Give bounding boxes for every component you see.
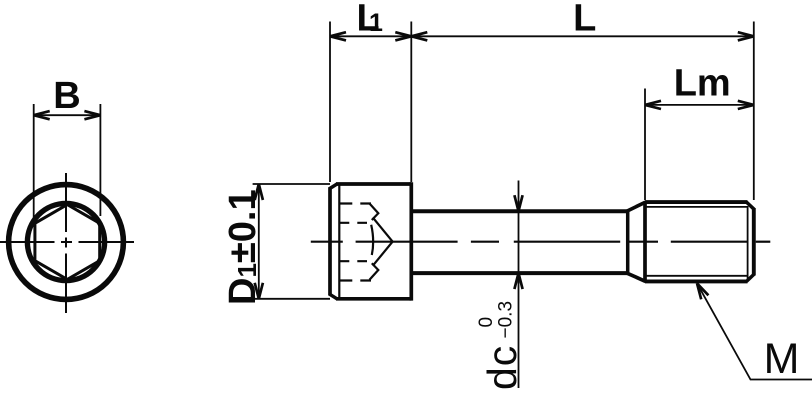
- B extension line right: [99, 104, 101, 216]
- L arrow left: [411, 32, 427, 40]
- B arrow right: [84, 111, 100, 119]
- outer circle (head OD): [9, 185, 124, 300]
- Lm dimension line: [645, 104, 754, 106]
- L extension line right: [753, 22, 755, 201]
- taper top: [627, 202, 646, 211]
- thread minor line bottom: [645, 275, 748, 277]
- L1 extension line left: [329, 22, 331, 183]
- vertical centerline left view: [65, 173, 67, 313]
- head top-left chamfer: [329, 184, 337, 189]
- svg-text:D1±0.1: D1±0.1: [222, 189, 264, 305]
- thread runout vertical: [626, 211, 630, 273]
- L1 dimension line: [330, 35, 411, 37]
- socket hidden line 2: [339, 222, 367, 224]
- head right edge: [409, 182, 413, 300]
- shank bottom line: [413, 271, 628, 275]
- L1 arrow right: [395, 32, 411, 40]
- side view centerline: [311, 241, 771, 243]
- thread chamfer line: [747, 206, 749, 280]
- svg-text:Lm: Lm: [674, 63, 731, 105]
- socket lower chevron: [370, 263, 379, 280]
- thread bottom-right chamfer: [747, 274, 755, 281]
- socket upper chevron: [370, 204, 379, 221]
- D1 extension line top: [253, 183, 330, 185]
- dc line through shank: [518, 211, 520, 273]
- shank top line: [413, 209, 628, 213]
- socket hidden line 1: [339, 202, 371, 204]
- svg-text:0: 0: [476, 317, 497, 328]
- svg-text:−0.3: −0.3: [496, 301, 517, 339]
- svg-text:L1: L1: [357, 0, 384, 39]
- head bottom edge: [336, 297, 411, 301]
- svg-text:M: M: [764, 335, 800, 383]
- D1 dimension line: [258, 184, 260, 299]
- thread start vertical: [643, 202, 647, 281]
- svg-text:dc: dc: [479, 345, 525, 390]
- M leader line: [697, 283, 812, 379]
- D1 arrow top: [255, 184, 263, 200]
- B dimension line: [34, 114, 101, 116]
- Lm arrow right: [738, 101, 754, 109]
- head left edge: [328, 188, 332, 296]
- L dimension line: [411, 35, 754, 37]
- hexagon socket: [35, 205, 100, 280]
- D1 extension line bottom: [253, 298, 330, 300]
- socket cone chevron: [373, 218, 393, 266]
- thread right edge: [752, 208, 756, 276]
- taper bottom: [627, 273, 646, 282]
- B arrow left: [34, 111, 50, 119]
- svg-text:L: L: [573, 0, 596, 40]
- B extension line left: [33, 104, 35, 223]
- socket hidden line 3: [339, 260, 367, 262]
- socket hidden line 4: [339, 279, 371, 281]
- L arrow right: [738, 32, 754, 40]
- dc dimension line lower: [518, 273, 520, 388]
- thread top-right chamfer: [747, 202, 755, 209]
- dc arrow top: [514, 195, 522, 211]
- head chamfer line: [338, 185, 340, 298]
- socket cone arc: [371, 225, 373, 255]
- inner circle (socket circumscribed): [27, 203, 104, 280]
- thread bottom edge: [645, 279, 748, 283]
- dc dimension line upper: [518, 181, 520, 212]
- D1 arrow bottom: [255, 283, 263, 299]
- dc arrow bottom: [514, 273, 522, 289]
- Lm extension line left: [644, 89, 646, 201]
- thread minor line top: [645, 206, 748, 208]
- thread top edge: [645, 200, 748, 204]
- head bottom-left chamfer: [329, 294, 337, 299]
- L1 arrow left: [330, 32, 346, 40]
- head top edge: [336, 182, 411, 186]
- M leader arrow: [697, 283, 708, 299]
- Lm arrow left: [645, 101, 661, 109]
- horizontal centerline left view: [0, 241, 134, 243]
- svg-text:B: B: [53, 75, 80, 117]
- L1/L extension line shared: [410, 22, 412, 183]
